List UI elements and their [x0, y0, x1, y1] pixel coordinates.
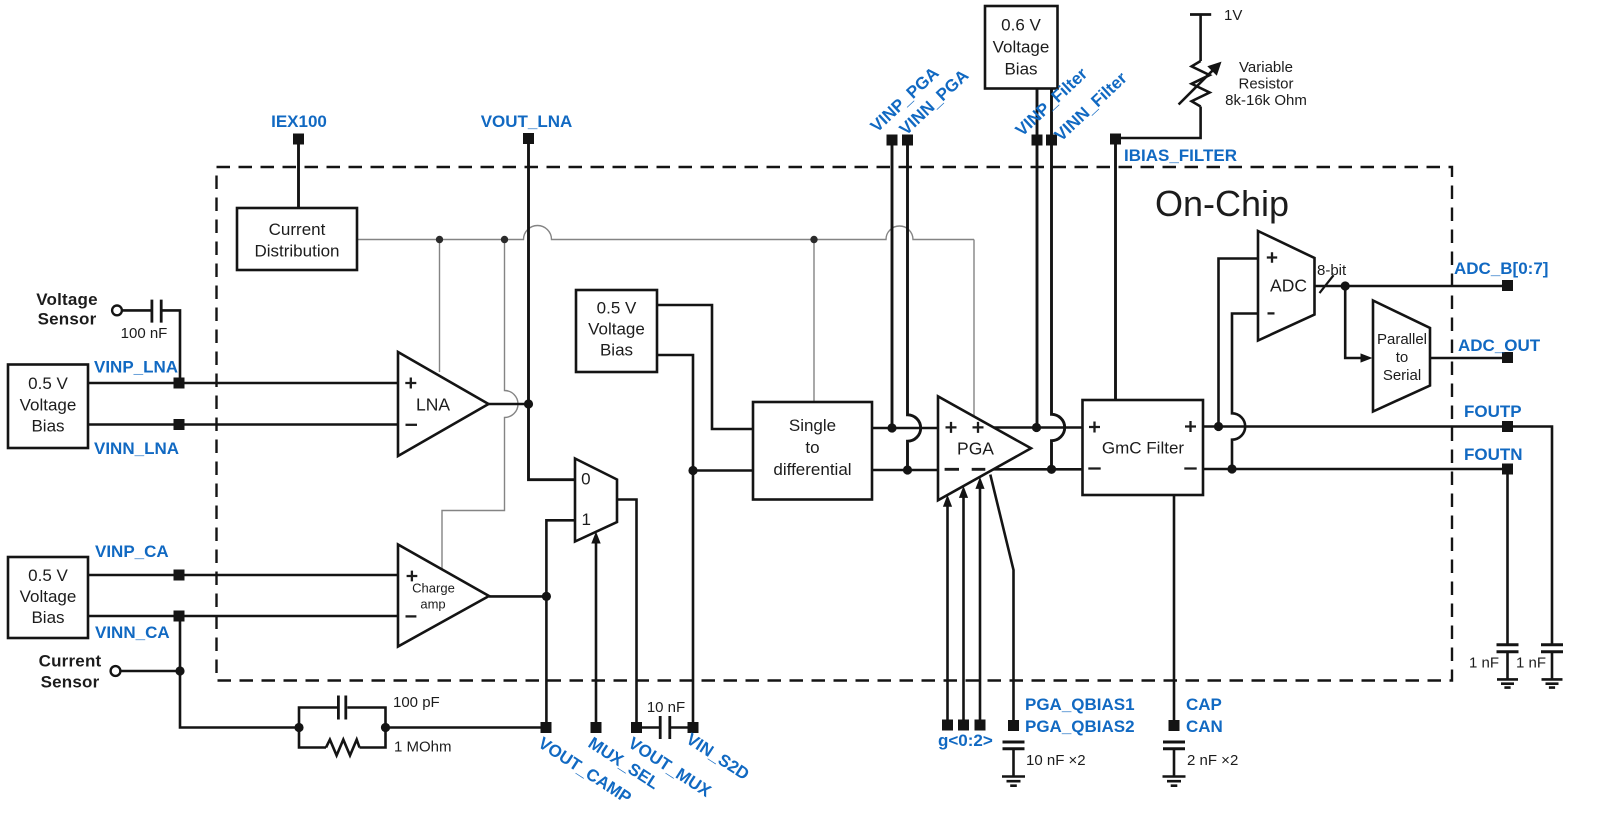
- wire Charge amp output to node: [489, 595, 546, 598]
- wire gray bias feed to Charge amp (with hop over LNA output): [442, 240, 518, 571]
- wire GmC bottom to CAP/CAN port: [1173, 495, 1176, 726]
- chip boundary (On-Chip dashed border): [217, 167, 1453, 681]
- svg-text:8k-16k Ohm: 8k-16k Ohm: [1225, 92, 1307, 109]
- wire VINP_Filter vertical (from 0.6V bias): [1036, 89, 1039, 428]
- port VIN_S2D: [688, 722, 699, 733]
- terminal Current Sensor (open circle): [111, 666, 121, 676]
- svg-text:IEX100: IEX100: [271, 112, 327, 131]
- wire VINN_PGA vertical (hop over upper wire): [908, 140, 921, 470]
- wire gray bias feed to Single-to-differential: [813, 240, 815, 403]
- port VINN_LNA: [174, 419, 185, 430]
- svg-text:Voltage: Voltage: [588, 320, 645, 339]
- svg-text:Voltage: Voltage: [993, 38, 1050, 57]
- wire 0.5V bias (mid) upper output to S2D upper input: [657, 305, 753, 429]
- svg-text:FOUTP: FOUTP: [1464, 402, 1522, 421]
- pin ADC -: [1268, 312, 1275, 314]
- op-amp Charge amp: [398, 545, 489, 647]
- svg-text:100 pF: 100 pF: [393, 694, 440, 711]
- wire g<0:2> control line 2 into PGA: [979, 487, 982, 725]
- wire LNA output to VOUT_LNA node: [489, 403, 529, 406]
- svg-text:Current: Current: [269, 220, 326, 239]
- wire VINN_Filter vertical (from 0.6V bias, hop over upper wire): [1052, 89, 1065, 470]
- svg-text:Variable: Variable: [1239, 59, 1293, 76]
- svg-text:1 nF: 1 nF: [1516, 655, 1546, 672]
- wire g<0:2> control line 1 into PGA: [962, 496, 965, 725]
- ground (under FOUTP cap): [1542, 679, 1563, 687]
- svg-text:Distribution: Distribution: [254, 242, 339, 261]
- junction gray node A (bus to LNA): [436, 236, 443, 243]
- wire gray bias feed to PGA: [973, 240, 975, 417]
- svg-text:Bias: Bias: [600, 341, 633, 360]
- svg-text:ADC: ADC: [1270, 276, 1307, 296]
- svg-text:0.5 V: 0.5 V: [597, 299, 637, 318]
- svg-text:Single: Single: [789, 416, 836, 435]
- svg-text:Voltage: Voltage: [20, 587, 77, 606]
- capacitor 10 nF x2 (PGA_QBIAS decoupling): [1003, 742, 1025, 749]
- block GmC Filter: [1083, 400, 1204, 495]
- block 0.5 V Voltage Bias (Charge amp): [8, 557, 88, 638]
- svg-text:0.5 V: 0.5 V: [28, 566, 68, 585]
- port VINN_CA: [174, 611, 185, 622]
- junction ADC bus node: [1341, 281, 1350, 290]
- power 1V supply bar: [1190, 13, 1211, 16]
- port VINN_Filter: [1046, 135, 1057, 146]
- pin Charge amp -: [406, 615, 417, 617]
- junction RC right node: [381, 723, 390, 732]
- svg-text:Bias: Bias: [31, 417, 64, 436]
- svg-text:10 nF ×2: 10 nF ×2: [1026, 752, 1086, 769]
- arrowhead g1: [959, 486, 968, 498]
- junction Charge amp output: [542, 592, 551, 601]
- svg-text:10 nF: 10 nF: [647, 699, 685, 716]
- svg-text:0.6 V: 0.6 V: [1001, 16, 1041, 35]
- wire RC network frame (100 pF / 1 MOhm parallel): [299, 708, 386, 748]
- svg-text:Resistor: Resistor: [1238, 76, 1293, 93]
- op-amp LNA: [398, 352, 489, 456]
- arrowhead into Parallel-to-Serial: [1361, 353, 1373, 362]
- junction gray node C (bus to S2D): [810, 236, 817, 243]
- svg-text:PGA: PGA: [957, 438, 994, 458]
- svg-text:2 nF ×2: 2 nF ×2: [1187, 752, 1238, 769]
- port PGA_QBIAS: [1008, 720, 1019, 731]
- port g0: [942, 720, 953, 731]
- block 0.5 V Voltage Bias (LNA): [8, 365, 88, 449]
- svg-text:PGA_QBIAS1: PGA_QBIAS1: [1025, 695, 1135, 714]
- port VOUT_MUX: [631, 722, 642, 733]
- wire mux input 1 feed: [546, 520, 575, 596]
- pin LNA -: [406, 424, 418, 426]
- svg-text:g<0:2>: g<0:2>: [938, 731, 993, 750]
- svg-text:IBIAS_FILTER: IBIAS_FILTER: [1124, 146, 1237, 165]
- wire VOUT_LNA vertical (port to LNA output, down to mux input 0): [529, 139, 576, 480]
- pin PGA + (input): [946, 422, 957, 433]
- svg-text:VINP_LNA: VINP_LNA: [94, 358, 178, 377]
- ground (under FOUTN cap): [1497, 679, 1518, 687]
- net current-distribution bus (gray horizontal): [357, 226, 974, 240]
- bus slash 8-bit: [1320, 275, 1334, 293]
- terminal Voltage Sensor (open circle): [112, 306, 122, 316]
- pin Charge amp +: [407, 571, 418, 582]
- svg-text:VOUT_LNA: VOUT_LNA: [481, 112, 573, 131]
- svg-text:ADC_B[0:7]: ADC_B[0:7]: [1454, 259, 1548, 278]
- wire Parallel-to-Serial output to ADC_OUT port: [1430, 357, 1508, 360]
- port g2: [975, 720, 986, 731]
- svg-text:differential: differential: [773, 460, 851, 479]
- junction VINP_Filter node: [1032, 423, 1041, 432]
- junction VINN_PGA node: [903, 465, 912, 474]
- adc U1 (ADC trapezoid): [1258, 231, 1315, 341]
- port VOUT_CAMP: [541, 722, 552, 733]
- port IBIAS_FILTER: [1110, 134, 1121, 145]
- port IEX100: [293, 134, 304, 145]
- wire VINN_CA (bias box to Charge amp -): [88, 615, 398, 618]
- arrow variable-resistor adjustment: [1179, 68, 1216, 105]
- svg-text:GmC Filter: GmC Filter: [1102, 438, 1185, 457]
- port FOUTN: [1502, 464, 1513, 475]
- svg-text:Parallel: Parallel: [1377, 331, 1427, 348]
- svg-text:amp: amp: [420, 597, 445, 612]
- svg-text:Charge: Charge: [412, 581, 455, 596]
- wire VOUT_CAMP vertical to port: [545, 596, 548, 727]
- wire MUX_SEL port to mux select (arrow): [595, 542, 598, 728]
- capacitor C_FOUTP 1 nF: [1541, 645, 1563, 652]
- resistor variable 8k-16k Ohm zigzag: [1192, 61, 1210, 107]
- junction VINP_PGA node: [887, 423, 896, 432]
- svg-text:Current: Current: [39, 652, 102, 671]
- svg-text:On-Chip: On-Chip: [1155, 183, 1289, 224]
- block 0.6 V Voltage Bias: [985, 6, 1058, 89]
- port VOUT_LNA: [523, 133, 534, 144]
- port VINP_PGA: [887, 135, 898, 146]
- svg-text:Voltage: Voltage: [36, 290, 98, 309]
- block Parallel to Serial: [1373, 301, 1430, 412]
- wire variable resistor to 1V supply: [1199, 15, 1202, 62]
- wire ADC bus down to Parallel-to-Serial: [1345, 286, 1362, 358]
- wire Current Sensor to node: [120, 670, 180, 673]
- junction ADC - node on FOUTN: [1227, 464, 1236, 473]
- wire PGA upper output to GmC +: [992, 426, 1083, 429]
- svg-text:PGA_QBIAS2: PGA_QBIAS2: [1025, 717, 1135, 736]
- svg-text:100 nF: 100 nF: [121, 325, 168, 342]
- wire PGA_QBIAS1/2 to PGA: [990, 475, 1013, 726]
- svg-text:1V: 1V: [1224, 7, 1242, 24]
- wire RC to VOUT_CAMP port: [386, 726, 547, 729]
- junction VOUT_LNA / LNA output: [524, 399, 533, 408]
- svg-text:VINN_LNA: VINN_LNA: [94, 439, 179, 458]
- wire IEX100 to Current Distribution: [297, 139, 300, 208]
- port VINN_PGA: [902, 135, 913, 146]
- pin ADC +: [1267, 252, 1277, 262]
- port ADC_OUT: [1502, 352, 1513, 363]
- capacitor 10 nF plates: [660, 716, 670, 739]
- wire ADC + input feed: [1219, 259, 1259, 427]
- arrowhead g2: [975, 477, 984, 489]
- wire ADC output bus to ADC_B[0:7] port: [1315, 285, 1508, 288]
- capacitor C_FOUTN 1 nF: [1497, 645, 1519, 652]
- resistor 1 MOhm zigzag: [326, 740, 360, 756]
- wire mux output to VOUT_MUX port: [617, 500, 637, 728]
- svg-text:0: 0: [581, 469, 590, 488]
- wire gray bias feed to LNA: [439, 240, 441, 373]
- svg-text:1 MOhm: 1 MOhm: [394, 739, 452, 756]
- svg-text:Sensor: Sensor: [38, 310, 97, 329]
- port VINP_LNA: [174, 378, 185, 389]
- wire GmC - output to FOUTN port and 1 nF cap: [1203, 469, 1508, 644]
- wire VINP_CA (bias box to Charge amp +): [88, 574, 398, 577]
- svg-text:VINP_CA: VINP_CA: [95, 542, 169, 561]
- wire Voltage Sensor to coupling cap and VINP_LNA node: [122, 310, 180, 378]
- wire VINN_CA node down to RC feedback: [180, 616, 299, 728]
- svg-text:ADC_OUT: ADC_OUT: [1458, 336, 1541, 355]
- svg-text:VINN_CA: VINN_CA: [95, 623, 170, 642]
- capacitor 2 nF x2 (CAP/CAN): [1163, 742, 1185, 749]
- block Single to differential: [753, 402, 872, 500]
- wire VINN_LNA (bias box to LNA -): [88, 423, 398, 426]
- wire PGA lower output to GmC -: [993, 468, 1083, 471]
- wire 0.5V bias (mid) lower output to VIN_S2D node: [657, 355, 693, 471]
- wire ADC - input feed (hop over FOUTP wire): [1232, 314, 1258, 470]
- wire VINP_PGA vertical: [891, 140, 894, 428]
- svg-text:Sensor: Sensor: [41, 673, 100, 692]
- port ADC_B[0:7]: [1502, 280, 1513, 291]
- svg-text:Serial: Serial: [1383, 367, 1421, 384]
- block 0.5 V Voltage Bias (S2D): [576, 290, 657, 372]
- wire 10 nF cap to VIN_S2D port: [671, 726, 693, 729]
- junction ADC + node on FOUTP: [1214, 422, 1223, 431]
- ground (under 2 nF x2): [1163, 777, 1186, 786]
- wire S2D lower output to PGA -: [872, 469, 938, 472]
- svg-text:LNA: LNA: [416, 395, 450, 415]
- arrowhead g0: [943, 495, 952, 507]
- wire VOUT_MUX to 10 nF cap: [637, 726, 660, 729]
- svg-text:to: to: [805, 438, 819, 457]
- capacitor 100 pF plates: [338, 696, 345, 720]
- svg-text:CAN: CAN: [1186, 717, 1223, 736]
- mux (0/1 selector): [575, 459, 617, 542]
- wire g<0:2> control line 0 into PGA: [946, 505, 949, 725]
- junction VINN_Filter node: [1047, 465, 1056, 474]
- port g1: [958, 720, 969, 731]
- port MUX_SEL: [591, 722, 602, 733]
- wire IBIAS_FILTER port to variable resistor: [1116, 107, 1201, 139]
- svg-text:FOUTN: FOUTN: [1464, 445, 1523, 464]
- pin LNA +: [405, 378, 416, 389]
- svg-text:Bias: Bias: [31, 608, 64, 627]
- junction VIN_S2D node: [688, 466, 697, 475]
- wire S2D upper output to PGA +: [872, 427, 938, 430]
- wire IBIAS_FILTER port down to GmC top: [1114, 139, 1117, 400]
- port FOUTP: [1502, 421, 1513, 432]
- port VINP_Filter: [1032, 135, 1043, 146]
- pin PGA + (aux): [973, 422, 984, 433]
- junction RC left node: [294, 723, 303, 732]
- amplifier PGA: [938, 396, 1031, 500]
- junction Current Sensor node: [175, 666, 184, 675]
- svg-text:1 nF: 1 nF: [1469, 655, 1499, 672]
- svg-text:0.5 V: 0.5 V: [28, 374, 68, 393]
- port CAP/CAN: [1169, 720, 1180, 731]
- svg-text:Bias: Bias: [1004, 60, 1037, 79]
- capacitor 100 nF (series, vertical plates): [152, 300, 161, 323]
- wire VIN_S2D vertical to S2D lower input: [693, 471, 753, 728]
- port VINP_CA: [174, 570, 185, 581]
- pin PGA - dashes: [945, 468, 986, 471]
- svg-text:to: to: [1396, 349, 1409, 366]
- pin GmC +/- marks: [1088, 421, 1196, 469]
- wire GmC + output to FOUTP port and 1 nF cap: [1203, 427, 1552, 645]
- arrowhead MUX_SEL: [591, 532, 600, 544]
- svg-text:CAP: CAP: [1186, 695, 1222, 714]
- wire VINP_LNA (bias box to LNA +): [88, 382, 398, 385]
- ground (under 10 nF x2): [1002, 777, 1025, 786]
- block Current Distribution: [237, 208, 357, 270]
- svg-text:1: 1: [581, 510, 590, 529]
- svg-text:Voltage: Voltage: [20, 396, 77, 415]
- svg-text:8-bit: 8-bit: [1317, 262, 1347, 279]
- junction gray node B (bus to Charge amp): [501, 236, 508, 243]
